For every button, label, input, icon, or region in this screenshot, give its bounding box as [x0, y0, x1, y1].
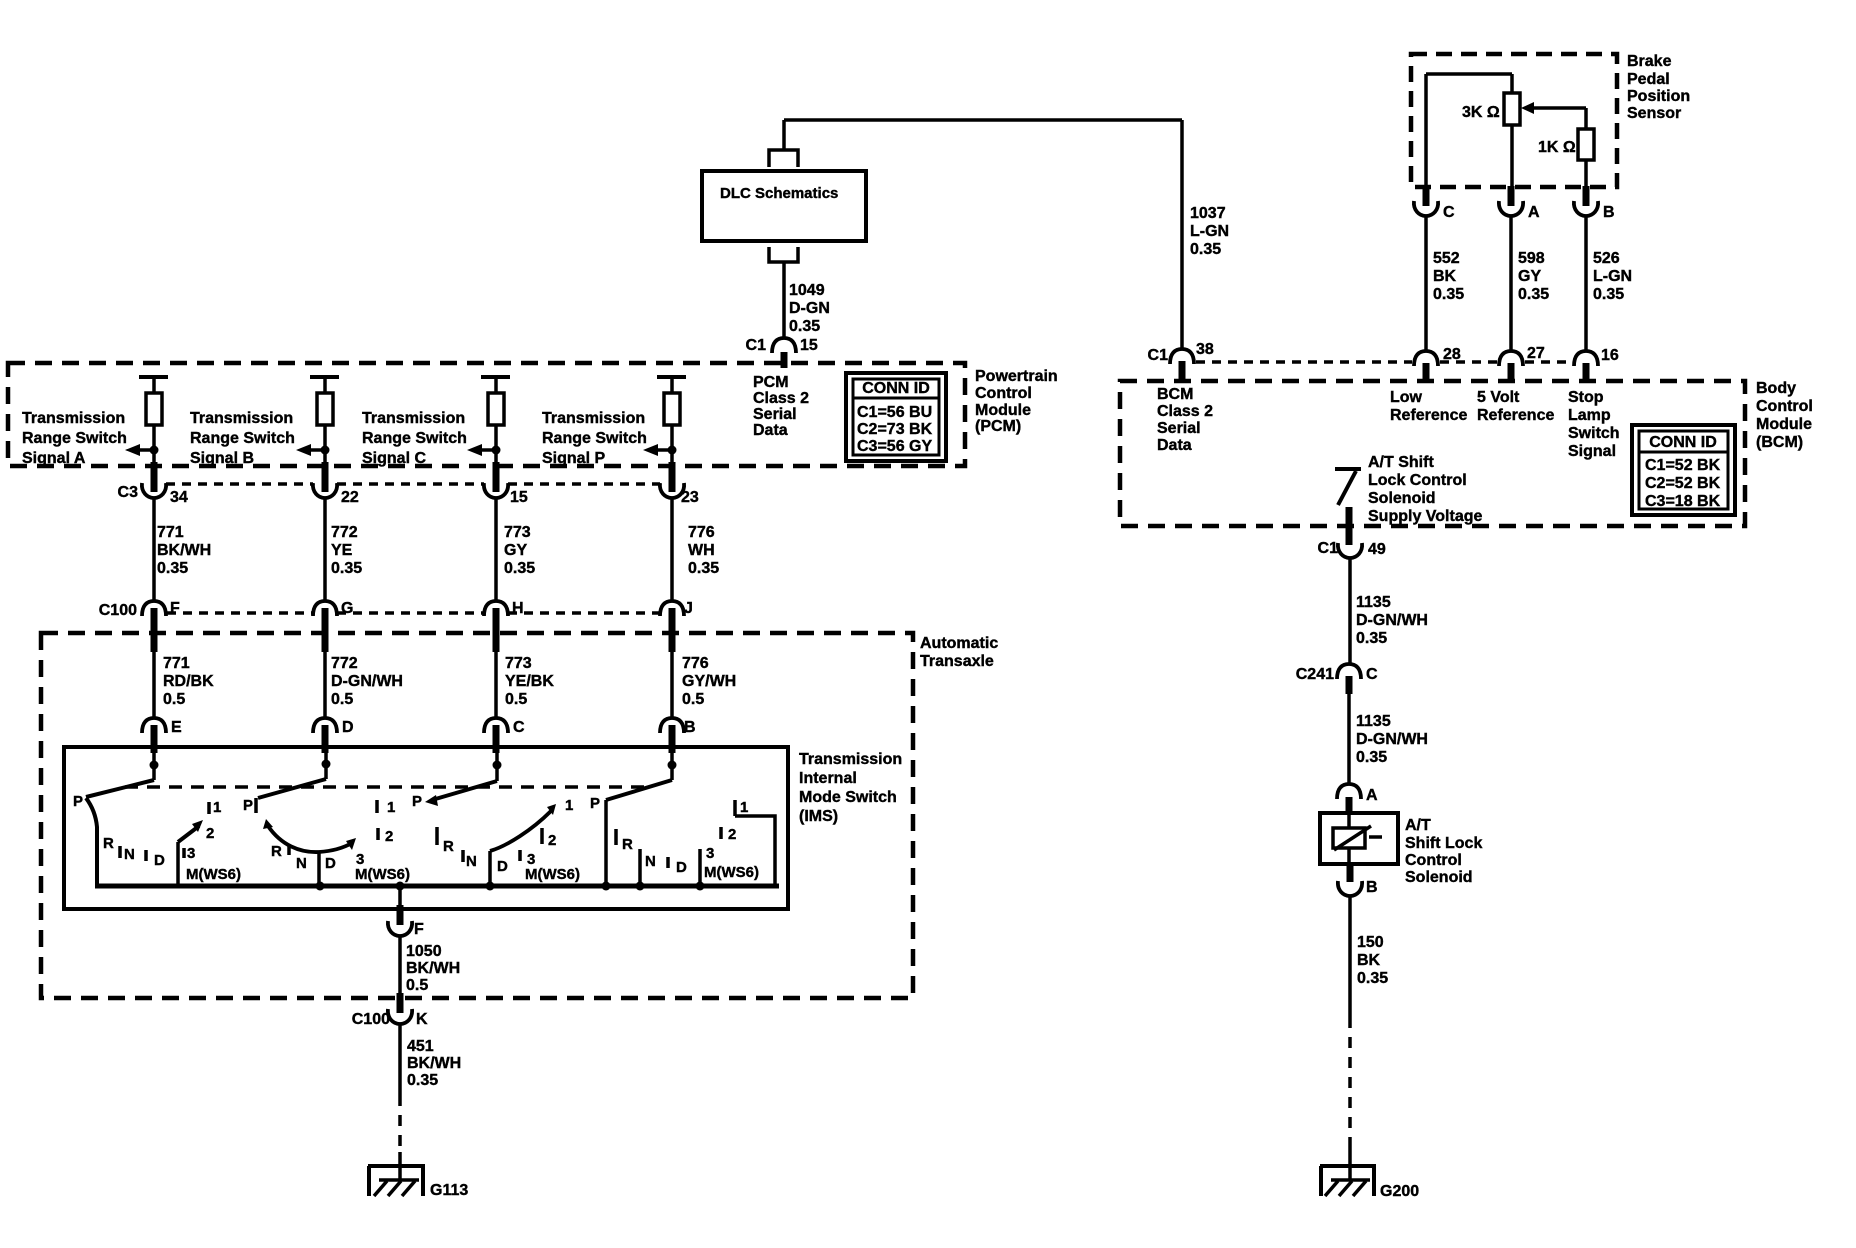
svg-text:776: 776 [688, 524, 715, 541]
svg-text:F: F [414, 921, 424, 938]
svg-text:552: 552 [1433, 250, 1460, 267]
svg-text:D-GN/WH: D-GN/WH [1356, 612, 1428, 629]
svg-text:Body: Body [1756, 380, 1796, 397]
svg-text:Stop: Stop [1568, 389, 1604, 406]
svg-text:YE/BK: YE/BK [505, 673, 554, 690]
svg-text:C241: C241 [1296, 666, 1334, 683]
svg-text:0.35: 0.35 [1518, 286, 1549, 303]
svg-text:Powertrain: Powertrain [975, 368, 1058, 385]
svg-text:Brake: Brake [1627, 53, 1672, 70]
svg-text:C1: C1 [746, 337, 767, 354]
svg-text:C2=73 BK: C2=73 BK [857, 421, 933, 438]
svg-text:Automatic: Automatic [920, 635, 998, 652]
svg-text:38: 38 [1196, 341, 1214, 358]
svg-text:27: 27 [1527, 345, 1545, 362]
svg-text:A: A [1366, 787, 1378, 804]
svg-text:Control: Control [1405, 852, 1462, 869]
svg-text:1: 1 [213, 799, 221, 816]
svg-text:0.35: 0.35 [331, 560, 362, 577]
svg-text:P: P [243, 797, 253, 814]
svg-text:DLC Schematics: DLC Schematics [720, 185, 838, 202]
svg-text:16: 16 [1601, 347, 1619, 364]
svg-text:598: 598 [1518, 250, 1545, 267]
svg-text:150: 150 [1357, 934, 1384, 951]
svg-text:R: R [622, 836, 633, 853]
svg-text:BK/WH: BK/WH [157, 542, 211, 559]
svg-text:Mode Switch: Mode Switch [799, 789, 897, 806]
svg-text:0.35: 0.35 [1356, 630, 1387, 647]
svg-text:0.35: 0.35 [1357, 970, 1388, 987]
svg-text:5 Volt: 5 Volt [1477, 389, 1520, 406]
svg-text:0.35: 0.35 [789, 318, 820, 335]
svg-text:A/T Shift: A/T Shift [1368, 454, 1434, 471]
svg-text:PCM: PCM [753, 374, 789, 391]
svg-text:Signal: Signal [1568, 443, 1616, 460]
svg-text:Range Switch: Range Switch [542, 430, 647, 447]
svg-text:D-GN/WH: D-GN/WH [331, 673, 403, 690]
svg-text:C1=52 BK: C1=52 BK [1645, 457, 1721, 474]
svg-text:C2=52 BK: C2=52 BK [1645, 475, 1721, 492]
svg-text:WH: WH [688, 542, 715, 559]
svg-text:0.35: 0.35 [157, 560, 188, 577]
svg-text:Signal P: Signal P [542, 450, 605, 467]
svg-text:3: 3 [706, 845, 714, 862]
svg-text:C3=18 BK: C3=18 BK [1645, 493, 1721, 510]
svg-text:773: 773 [504, 524, 531, 541]
svg-text:1: 1 [387, 799, 395, 816]
svg-text:GY: GY [504, 542, 527, 559]
svg-text:D-GN/WH: D-GN/WH [1356, 731, 1428, 748]
svg-text:0.5: 0.5 [163, 691, 185, 708]
svg-text:Module: Module [1756, 416, 1812, 433]
svg-text:776: 776 [682, 655, 709, 672]
svg-text:0.5: 0.5 [505, 691, 527, 708]
svg-text:CONN ID: CONN ID [862, 380, 930, 397]
svg-text:Range Switch: Range Switch [190, 430, 295, 447]
svg-text:YE: YE [331, 542, 353, 559]
svg-text:Switch: Switch [1568, 425, 1620, 442]
svg-text:0.35: 0.35 [1593, 286, 1624, 303]
svg-text:(IMS): (IMS) [799, 808, 838, 825]
svg-text:B: B [1603, 204, 1615, 221]
svg-text:Signal C: Signal C [362, 450, 426, 467]
svg-text:526: 526 [1593, 250, 1620, 267]
svg-text:L-GN: L-GN [1593, 268, 1632, 285]
svg-text:A/T: A/T [1405, 817, 1431, 834]
svg-text:771: 771 [157, 524, 184, 541]
svg-text:Range Switch: Range Switch [22, 430, 127, 447]
svg-text:0.5: 0.5 [682, 691, 704, 708]
svg-text:CONN ID: CONN ID [1649, 434, 1717, 451]
svg-text:2: 2 [206, 825, 214, 842]
svg-text:23: 23 [681, 489, 699, 506]
svg-text:Data: Data [753, 422, 788, 439]
svg-text:(PCM): (PCM) [975, 418, 1021, 435]
svg-text:Reference: Reference [1390, 407, 1467, 424]
svg-text:Internal: Internal [799, 770, 857, 787]
svg-text:Shift Lock: Shift Lock [1405, 835, 1482, 852]
svg-text:GY: GY [1518, 268, 1541, 285]
svg-text:0.5: 0.5 [331, 691, 353, 708]
svg-text:Control: Control [975, 385, 1032, 402]
svg-text:Transmission: Transmission [190, 410, 293, 427]
svg-text:G113: G113 [430, 1182, 468, 1199]
svg-text:A: A [1528, 204, 1540, 221]
svg-text:G200: G200 [1380, 1183, 1419, 1200]
svg-text:D: D [342, 719, 354, 736]
svg-text:C3=56 GY: C3=56 GY [857, 438, 932, 455]
svg-text:C1=56 BU: C1=56 BU [857, 404, 932, 421]
svg-text:22: 22 [341, 489, 359, 506]
svg-text:2: 2 [548, 832, 556, 849]
svg-text:0.35: 0.35 [407, 1072, 438, 1089]
svg-text:Solenoid: Solenoid [1368, 490, 1436, 507]
svg-text:L-GN: L-GN [1190, 223, 1229, 240]
svg-text:(BCM): (BCM) [1756, 434, 1803, 451]
svg-text:2: 2 [728, 826, 736, 843]
svg-text:Transmission: Transmission [22, 410, 125, 427]
svg-text:BCM: BCM [1157, 386, 1193, 403]
svg-text:K: K [416, 1011, 428, 1028]
svg-text:1049: 1049 [789, 282, 825, 299]
svg-text:D-GN: D-GN [789, 300, 830, 317]
svg-text:E: E [171, 719, 182, 736]
svg-text:15: 15 [800, 337, 818, 354]
svg-text:Module: Module [975, 402, 1031, 419]
svg-text:49: 49 [1368, 541, 1386, 558]
svg-text:Range Switch: Range Switch [362, 430, 467, 447]
svg-text:Transmission: Transmission [362, 410, 465, 427]
svg-text:15: 15 [510, 489, 528, 506]
svg-text:R: R [443, 838, 454, 855]
svg-text:P: P [73, 793, 83, 810]
svg-text:Signal A: Signal A [22, 450, 86, 467]
svg-text:2: 2 [385, 828, 393, 845]
svg-text:0.35: 0.35 [688, 560, 719, 577]
svg-text:Transaxle: Transaxle [920, 653, 994, 670]
svg-text:M(WS6): M(WS6) [186, 866, 241, 883]
svg-text:GY/WH: GY/WH [682, 673, 736, 690]
svg-text:Serial: Serial [1157, 420, 1201, 437]
svg-text:P: P [412, 793, 422, 810]
svg-text:BK/WH: BK/WH [407, 1055, 461, 1072]
svg-text:Class 2: Class 2 [1157, 403, 1213, 420]
svg-text:P: P [590, 795, 600, 812]
svg-text:0.35: 0.35 [1356, 749, 1387, 766]
svg-text:1135: 1135 [1356, 594, 1391, 611]
svg-text:0.35: 0.35 [1433, 286, 1464, 303]
svg-text:R: R [271, 843, 282, 860]
svg-text:C100: C100 [352, 1011, 390, 1028]
svg-text:C: C [1443, 204, 1455, 221]
svg-text:1135: 1135 [1356, 713, 1391, 730]
svg-text:772: 772 [331, 655, 358, 672]
svg-text:C: C [513, 719, 525, 736]
svg-text:D: D [676, 859, 687, 876]
svg-text:451: 451 [407, 1038, 434, 1055]
svg-text:Sensor: Sensor [1627, 105, 1681, 122]
svg-text:C3: C3 [118, 484, 139, 501]
svg-text:1050: 1050 [406, 943, 442, 960]
svg-text:M(WS6): M(WS6) [355, 866, 410, 883]
svg-text:1K Ω: 1K Ω [1538, 139, 1576, 156]
svg-text:BK/WH: BK/WH [406, 960, 460, 977]
svg-text:D: D [497, 858, 508, 875]
svg-text:Lamp: Lamp [1568, 407, 1611, 424]
svg-text:Low: Low [1390, 389, 1423, 406]
svg-text:34: 34 [170, 489, 188, 506]
svg-text:C1: C1 [1318, 540, 1339, 557]
svg-text:1: 1 [740, 799, 748, 816]
svg-text:C1: C1 [1148, 347, 1169, 364]
svg-text:Solenoid: Solenoid [1405, 869, 1473, 886]
svg-text:N: N [296, 855, 307, 872]
svg-text:M(WS6): M(WS6) [704, 864, 759, 881]
svg-text:0.35: 0.35 [1190, 241, 1221, 258]
svg-text:Pedal: Pedal [1627, 71, 1670, 88]
svg-text:3: 3 [187, 845, 195, 862]
svg-text:M(WS6): M(WS6) [525, 866, 580, 883]
svg-text:0.35: 0.35 [504, 560, 535, 577]
svg-text:J: J [684, 600, 693, 617]
svg-text:Supply Voltage: Supply Voltage [1368, 508, 1482, 525]
svg-text:Signal B: Signal B [190, 450, 254, 467]
svg-text:771: 771 [163, 655, 190, 672]
svg-text:Data: Data [1157, 437, 1192, 454]
svg-text:BK: BK [1357, 952, 1381, 969]
svg-text:BK: BK [1433, 268, 1457, 285]
svg-text:D: D [154, 852, 165, 869]
svg-text:1037: 1037 [1190, 205, 1226, 222]
svg-text:C: C [1366, 666, 1378, 683]
svg-text:RD/BK: RD/BK [163, 673, 214, 690]
svg-text:Serial: Serial [753, 406, 797, 423]
svg-text:R: R [103, 835, 114, 852]
svg-text:N: N [645, 853, 656, 870]
svg-text:1: 1 [565, 797, 573, 814]
svg-text:C100: C100 [99, 602, 137, 619]
svg-text:D: D [325, 855, 336, 872]
svg-text:Control: Control [1756, 398, 1813, 415]
svg-text:3K Ω: 3K Ω [1462, 104, 1500, 121]
svg-text:0.5: 0.5 [406, 977, 428, 994]
svg-text:Lock Control: Lock Control [1368, 472, 1467, 489]
svg-text:Position: Position [1627, 88, 1690, 105]
svg-text:Transmission: Transmission [542, 410, 645, 427]
svg-text:B: B [1366, 879, 1378, 896]
svg-text:Transmission: Transmission [799, 751, 902, 768]
svg-text:Reference: Reference [1477, 407, 1554, 424]
svg-text:772: 772 [331, 524, 358, 541]
svg-text:Class 2: Class 2 [753, 390, 809, 407]
svg-text:B: B [684, 719, 696, 736]
svg-text:N: N [466, 853, 477, 870]
svg-text:773: 773 [505, 655, 532, 672]
svg-text:N: N [124, 846, 135, 863]
